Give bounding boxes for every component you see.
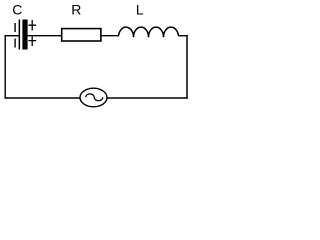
wire: left vertical [4,35,6,99]
wire: bottom horizontal [5,97,188,99]
svg-text:C: C [12,2,22,18]
inductor L: cusp dot 2 [148,35,150,37]
wire: left lead into capacitor [5,35,20,37]
wire: inductor to right corner [178,35,188,37]
capacitor C: negative-plate dash lower [14,39,16,48]
AC source: ellipse body [80,88,107,107]
inductor L: cusp dot 1 [133,35,135,37]
capacitor C: thick plate [22,20,27,50]
inductor L: cusp dot 3 [163,35,165,37]
capacitor C: plus sign lower [28,36,36,46]
inductor L [119,27,179,36]
capacitor C: negative-plate dash upper [14,23,16,32]
svg-text:R: R [71,2,81,18]
svg-text:L: L [136,2,144,18]
wire: right vertical [186,35,188,99]
capacitor C: thin plate [18,20,20,50]
wire: resistor to inductor [101,35,119,37]
AC source: sine wave [86,94,103,101]
capacitor C: plus sign upper [28,20,36,31]
wire: capacitor to resistor [28,35,62,37]
resistor R [62,29,101,41]
